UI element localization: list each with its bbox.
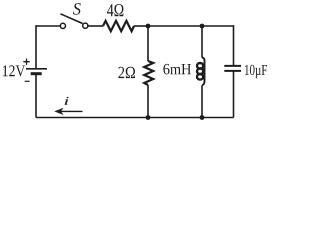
current arrow i shaft [58,110,83,112]
label 6mH [163,64,191,75]
wire node A to node B [148,25,202,27]
wire inductor branch lower [201,86,203,118]
wire inductor branch upper [201,26,203,58]
wire right vertical bottom (capacitor to bottom wire) [233,71,235,118]
capacitor C 10uF bottom plate [224,70,241,72]
inductor L 6mH loop 1 [197,63,203,69]
wire right vertical top (to capacitor) [233,25,235,66]
switch S left contact circle [60,23,65,28]
inductor L 6mH loop 3 [197,74,203,80]
label 2ohm [118,67,135,78]
node B junction dot top of inductor [200,24,205,29]
battery source 12V short negative plate [31,72,42,75]
current arrow i head [54,108,63,115]
wire node B to top-right corner [202,25,234,27]
minus sign of source [25,80,30,82]
resistor 2ohm vertical zigzag [144,61,153,85]
junction dot bottom of 2ohm [146,115,151,120]
plus sign of source [23,59,29,65]
wire 2ohm branch lower [147,85,149,118]
capacitor C 10uF top plate [224,65,241,67]
label 10uF [245,65,267,78]
resistor R 4ohm horizontal zigzag [103,21,134,31]
inductor L 6mH loop 2 [197,69,203,75]
wire resistor to node A [134,25,148,27]
battery source 12V long positive plate [26,68,47,70]
wire top-left stub from corner to switch [36,25,60,27]
label 4ohm [107,4,123,16]
node A junction dot top of 2ohm [146,24,151,29]
label 12V [3,65,25,76]
wire left vertical (bottom) [35,74,37,118]
wire 2ohm branch upper [147,26,149,61]
label S [73,3,81,15]
inductor L 6mH right strand [202,57,205,85]
wire between switch and resistor [88,25,103,27]
switch S right contact circle [83,23,88,28]
wire bottom return [36,117,234,119]
junction dot bottom of inductor [200,115,205,120]
label i [65,97,69,105]
wire left vertical (top) [35,25,37,69]
switch S lever (open blade) [60,14,82,24]
